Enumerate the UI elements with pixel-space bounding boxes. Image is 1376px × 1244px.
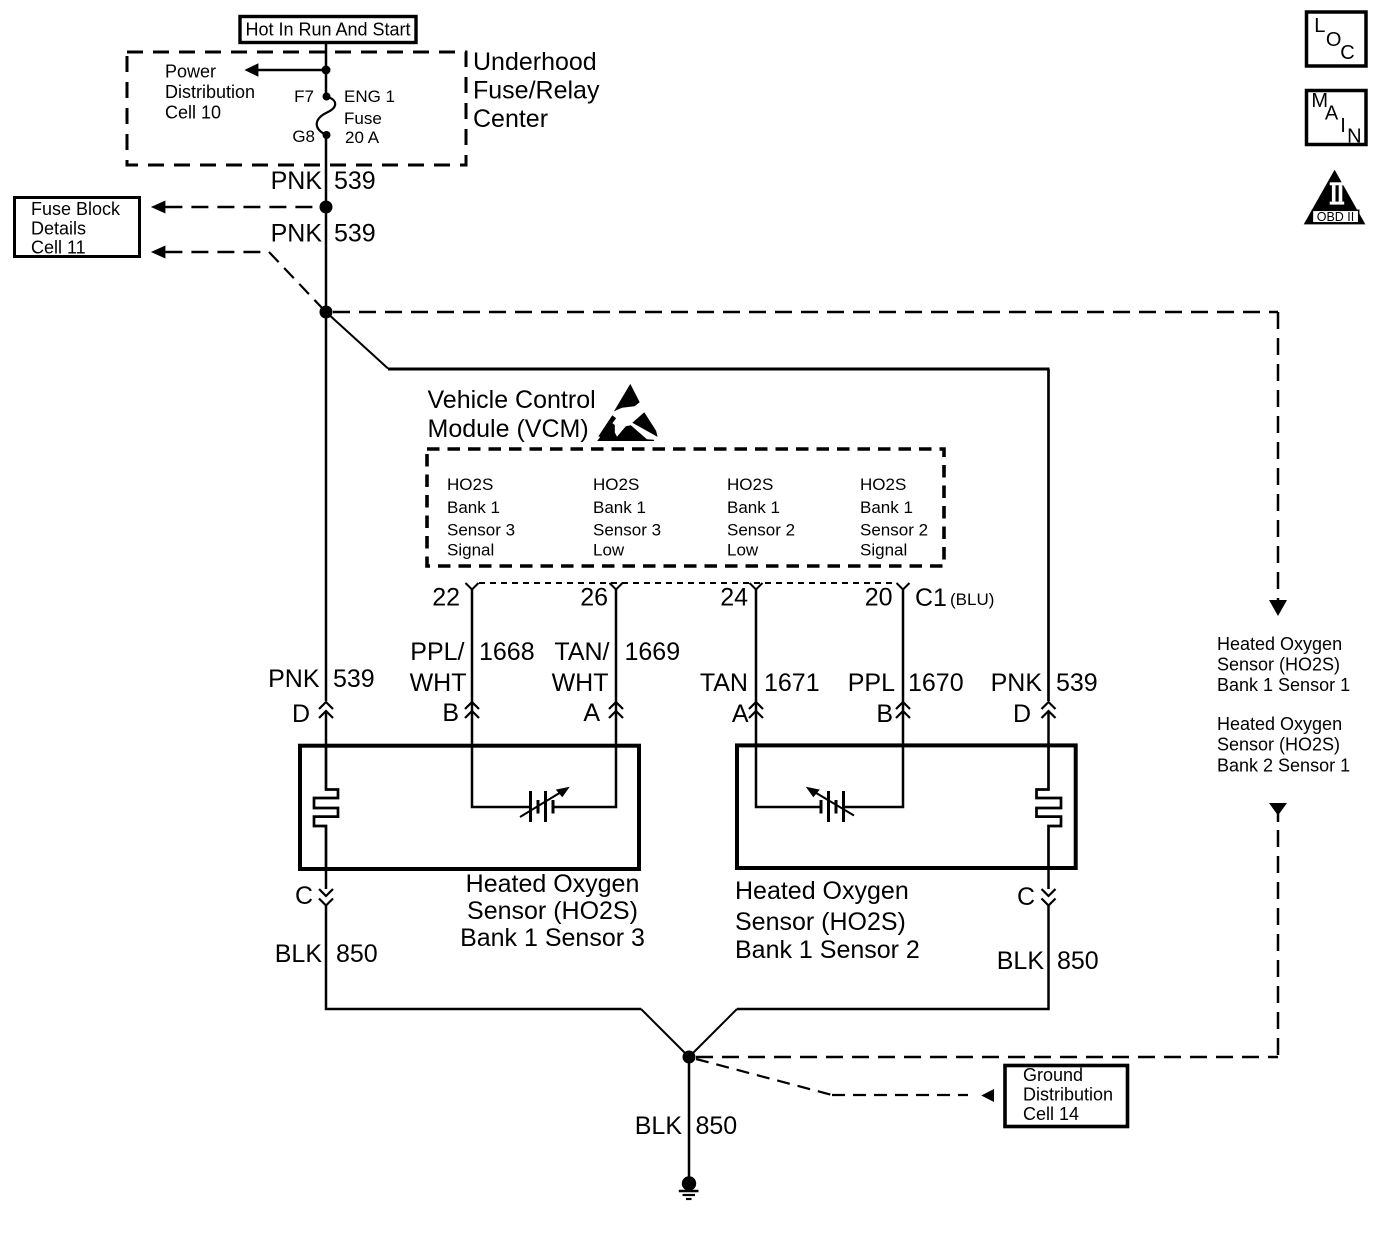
connector chevrons pin D left bbox=[319, 702, 333, 718]
svg-text:20 A: 20 A bbox=[345, 128, 380, 147]
label TAN 1671 bbox=[700, 669, 820, 697]
svg-text:Bank 1: Bank 1 bbox=[447, 498, 500, 517]
wire diagonal left to ground junction bbox=[641, 1009, 689, 1057]
svg-text:20: 20 bbox=[865, 584, 893, 612]
svg-text:Center: Center bbox=[473, 105, 548, 133]
svg-text:850: 850 bbox=[336, 940, 378, 968]
svg-text:Bank 1: Bank 1 bbox=[727, 498, 780, 517]
svg-text:Bank 1: Bank 1 bbox=[593, 498, 646, 517]
svg-text:PNK: PNK bbox=[268, 665, 320, 693]
op left HO2S box outline (Bank 1 Sensor 3) bbox=[300, 746, 639, 869]
pin 20 connector Y bbox=[897, 583, 910, 590]
Underhood Fuse/Relay Center dashed box bbox=[127, 52, 466, 165]
svg-text:B: B bbox=[442, 699, 459, 727]
svg-text:A: A bbox=[583, 699, 600, 727]
svg-text:(BLU): (BLU) bbox=[950, 590, 994, 609]
wire pin D left into box bbox=[325, 711, 328, 748]
symbol MAIN box bbox=[1307, 90, 1367, 148]
svg-text:Sensor (HO2S): Sensor (HO2S) bbox=[467, 897, 638, 925]
svg-text:PNK: PNK bbox=[271, 220, 323, 248]
svg-text:Power: Power bbox=[165, 62, 216, 82]
svg-text:OBD II: OBD II bbox=[1317, 210, 1355, 224]
svg-text:Cell 14: Cell 14 bbox=[1023, 1104, 1079, 1124]
svg-text:B: B bbox=[876, 700, 893, 728]
label Heated Oxygen Sensor (HO2S) Bank 2 Sensor 1 bbox=[1217, 714, 1350, 776]
connector chevrons pin C right (down) bbox=[1042, 889, 1056, 906]
heater element right (resistor meander) bbox=[1037, 747, 1062, 866]
sensor cell left (variable voltage source) bbox=[520, 787, 570, 822]
node junction at fuse feed bbox=[322, 66, 331, 75]
svg-text:G8: G8 bbox=[292, 127, 315, 146]
svg-text:1668: 1668 bbox=[479, 638, 535, 666]
label HO2S Bank 1 Sensor 3 Signal bbox=[447, 475, 515, 560]
wire dashed to Ground Distribution bbox=[696, 1059, 994, 1102]
svg-text:C1: C1 bbox=[915, 584, 947, 612]
wire diagonal right to ground junction bbox=[689, 1009, 737, 1057]
label TAN/ WHT 1669 bbox=[552, 638, 681, 697]
connector chevrons pin D right bbox=[1042, 702, 1056, 718]
pin 26 connector Y bbox=[610, 583, 623, 590]
svg-text:D: D bbox=[292, 700, 310, 728]
wire TAN/WHT 1669 pin 26 down into left HO2S box bbox=[554, 590, 616, 808]
svg-text:HO2S: HO2S bbox=[593, 475, 639, 494]
svg-text:1669: 1669 bbox=[625, 638, 681, 666]
ESD sensitivity symbol bbox=[597, 384, 658, 441]
svg-text:D: D bbox=[1013, 700, 1031, 728]
svg-text:A: A bbox=[732, 700, 749, 728]
label BLK 850 right bbox=[997, 947, 1099, 975]
wire dashed line to HO2S Bank1 Sensor1 reference (top right) bbox=[333, 311, 1278, 314]
connector chevrons pin A right bbox=[749, 702, 763, 718]
svg-text:539: 539 bbox=[334, 167, 376, 195]
node junction to VCM bbox=[320, 306, 333, 319]
wire dashed arrow to Fuse Block Details (upper) bbox=[151, 201, 326, 214]
wire dashed arrow to Fuse Block Details (lower) bbox=[151, 246, 324, 311]
svg-text:539: 539 bbox=[334, 220, 376, 248]
label Heated Oxygen Sensor (HO2S) Bank 1 Sensor 1 bbox=[1217, 634, 1350, 695]
svg-text:Bank 2 Sensor 1: Bank 2 Sensor 1 bbox=[1217, 756, 1350, 776]
svg-text:ENG 1: ENG 1 bbox=[344, 87, 395, 106]
label HO2S Bank 1 Sensor 3 Low bbox=[593, 475, 661, 560]
svg-text:HO2S: HO2S bbox=[727, 475, 773, 494]
svg-text:Fuse Block: Fuse Block bbox=[31, 199, 121, 219]
wire BLK 850 below left box bbox=[325, 869, 328, 889]
svg-text:N: N bbox=[1347, 126, 1361, 148]
svg-text:Sensor (HO2S): Sensor (HO2S) bbox=[1217, 655, 1340, 675]
svg-text:C: C bbox=[1017, 883, 1035, 911]
svg-text:850: 850 bbox=[1057, 947, 1099, 975]
svg-text:WHT: WHT bbox=[552, 669, 609, 697]
svg-text:Cell 11: Cell 11 bbox=[31, 238, 86, 258]
wire dashed line from ground junction up to HO2S Bank2 Sensor1 reference bbox=[1269, 803, 1287, 816]
svg-text:Module (VCM): Module (VCM) bbox=[428, 415, 589, 443]
svg-text:PPL/: PPL/ bbox=[410, 638, 464, 666]
wire BLK 850 below right box bbox=[1047, 868, 1050, 889]
svg-text:Bank 1: Bank 1 bbox=[860, 498, 913, 517]
node ground junction bbox=[683, 1051, 696, 1064]
label PNK 539 (second) bbox=[271, 220, 376, 248]
svg-text:1670: 1670 bbox=[908, 669, 964, 697]
label PNK 539 (left mid) bbox=[268, 665, 375, 693]
svg-text:A: A bbox=[1325, 103, 1339, 125]
svg-text:Sensor 2: Sensor 2 bbox=[727, 521, 795, 540]
label HO2S Bank 1 Sensor 2 Signal bbox=[860, 475, 928, 560]
label PNK 539 (first) bbox=[271, 167, 376, 195]
heater element left (resistor meander) bbox=[314, 747, 338, 867]
node Fuse Block Details Cell 11 box bbox=[15, 198, 140, 258]
wire dashed from ground junction to right riser bbox=[696, 1056, 1278, 1059]
svg-text:850: 850 bbox=[696, 1112, 738, 1140]
label Heated Oxygen Sensor (HO2S) Bank 1 Sensor 3 bbox=[460, 870, 645, 952]
svg-text:Bank 1 Sensor 2: Bank 1 Sensor 2 bbox=[735, 936, 920, 964]
svg-text:PNK: PNK bbox=[271, 167, 323, 195]
svg-text:F7: F7 bbox=[294, 87, 314, 106]
svg-text:Signal: Signal bbox=[860, 541, 907, 560]
wire BLK 850 right lower bbox=[737, 906, 1049, 1010]
svg-text:HO2S: HO2S bbox=[860, 475, 906, 494]
svg-text:Distribution: Distribution bbox=[165, 82, 255, 102]
svg-text:Heated Oxygen: Heated Oxygen bbox=[1217, 714, 1342, 734]
svg-text:Details: Details bbox=[31, 219, 86, 239]
op VCM outline right edge / wire PNK 539 right bbox=[1047, 369, 1050, 701]
wire PNK 539 main vertical down to left HO2S box bbox=[325, 312, 328, 701]
svg-text:Bank 1 Sensor 3: Bank 1 Sensor 3 bbox=[460, 924, 645, 952]
wire PPL 1670 pin 20 down into right HO2S box bbox=[845, 590, 903, 808]
svg-text:BLK: BLK bbox=[635, 1112, 683, 1140]
svg-text:Heated Oxygen: Heated Oxygen bbox=[735, 877, 909, 905]
svg-text:22: 22 bbox=[432, 584, 460, 612]
svg-text:TAN/: TAN/ bbox=[554, 638, 609, 666]
svg-text:BLK: BLK bbox=[275, 940, 323, 968]
svg-text:BLK: BLK bbox=[997, 947, 1045, 975]
svg-text:26: 26 bbox=[580, 584, 608, 612]
VCM internal dashed box bbox=[427, 449, 944, 566]
svg-text:539: 539 bbox=[1056, 669, 1098, 697]
label Vehicle Control Module (VCM) bbox=[428, 386, 596, 443]
svg-text:TAN: TAN bbox=[700, 669, 748, 697]
wire from Hot In Run And Start box down to fuse bbox=[325, 43, 328, 97]
svg-text:Heated Oxygen: Heated Oxygen bbox=[1217, 634, 1342, 654]
label BLK 850 bottom bbox=[635, 1112, 737, 1140]
label PPL/ WHT 1668 bbox=[410, 638, 535, 697]
svg-text:Low: Low bbox=[593, 541, 625, 560]
svg-text:Sensor (HO2S): Sensor (HO2S) bbox=[1217, 735, 1340, 755]
svg-text:Sensor (HO2S): Sensor (HO2S) bbox=[735, 908, 906, 936]
svg-text:Sensor 3: Sensor 3 bbox=[593, 521, 661, 540]
svg-text:PNK: PNK bbox=[991, 669, 1043, 697]
wire diagonal from junction to VCM corner bbox=[326, 312, 388, 369]
op VCM outline top edge bbox=[388, 368, 1050, 371]
svg-text:Vehicle Control: Vehicle Control bbox=[428, 386, 596, 414]
connector chevrons pin C left (down) bbox=[319, 889, 333, 906]
svg-text:Ground: Ground bbox=[1023, 1065, 1083, 1085]
svg-text:Sensor 3: Sensor 3 bbox=[447, 521, 515, 540]
svg-text:Cell 10: Cell 10 bbox=[165, 103, 221, 123]
ground symbol G107 bbox=[679, 1176, 699, 1199]
connector chevrons pin B right bbox=[896, 702, 910, 718]
svg-text:Fuse: Fuse bbox=[344, 109, 382, 128]
node Hot In Run And Start box bbox=[240, 17, 416, 43]
svg-text:Fuse/Relay: Fuse/Relay bbox=[473, 77, 600, 105]
svg-text:Signal: Signal bbox=[447, 541, 494, 560]
label PPL 1670 bbox=[848, 669, 964, 697]
pin 24 connector Y bbox=[750, 583, 763, 590]
svg-text:HO2S: HO2S bbox=[447, 475, 493, 494]
svg-text:C: C bbox=[295, 882, 313, 910]
connector chevrons pin B left bbox=[465, 702, 479, 718]
wire arrow to Power Distribution bbox=[244, 63, 326, 76]
svg-text:I: I bbox=[1340, 115, 1346, 137]
connector C1 dashed line bbox=[479, 582, 897, 584]
pin 22 connector Y bbox=[466, 583, 479, 590]
op right HO2S box outline (Bank 1 Sensor 2) bbox=[737, 745, 1076, 868]
label Underhood Fuse/Relay Center bbox=[473, 48, 600, 133]
svg-text:WHT: WHT bbox=[410, 669, 467, 697]
sensor cell right (variable voltage source) bbox=[806, 787, 854, 822]
label Heated Oxygen Sensor (HO2S) Bank 1 Sensor 2 bbox=[735, 877, 920, 964]
wire PPL/WHT 1668 pin 22 down into left HO2S box bbox=[472, 590, 530, 808]
svg-text:C: C bbox=[1340, 42, 1354, 64]
symbol OBD II triangle bbox=[1304, 170, 1366, 225]
node Ground Distribution Cell 14 box bbox=[1005, 1065, 1128, 1127]
svg-text:O: O bbox=[1326, 29, 1342, 51]
wire TAN 1671 pin 24 down into right HO2S box bbox=[756, 590, 820, 808]
svg-text:Heated Oxygen: Heated Oxygen bbox=[466, 870, 640, 898]
svg-text:Low: Low bbox=[727, 541, 759, 560]
svg-text:L: L bbox=[1314, 15, 1325, 37]
wire BLK 850 left lower bbox=[326, 906, 641, 1010]
label BLK 850 left bbox=[275, 940, 378, 968]
svg-text:24: 24 bbox=[720, 584, 748, 612]
svg-text:PPL: PPL bbox=[848, 669, 895, 697]
svg-text:Underhood: Underhood bbox=[473, 48, 597, 76]
fuse F7/G8 ENG 1 20 A bbox=[317, 93, 335, 140]
label HO2S Bank 1 Sensor 2 Low bbox=[727, 475, 795, 560]
wire PNK 539 from fuse to junction bbox=[325, 135, 328, 312]
node junction to Fuse Block Details bbox=[320, 201, 333, 214]
svg-text:539: 539 bbox=[333, 665, 375, 693]
connector chevrons pin A left bbox=[609, 702, 623, 718]
wire BLK 850 to ground bbox=[688, 1057, 691, 1177]
label Power Distribution Cell 10 bbox=[165, 62, 255, 123]
svg-text:1671: 1671 bbox=[764, 669, 820, 697]
symbol LOC box bbox=[1307, 12, 1367, 66]
wire pin D right into box bbox=[1047, 711, 1050, 748]
svg-text:Hot In Run And Start: Hot In Run And Start bbox=[245, 20, 410, 40]
svg-text:Sensor 2: Sensor 2 bbox=[860, 521, 928, 540]
svg-text:Bank 1 Sensor 1: Bank 1 Sensor 1 bbox=[1217, 675, 1350, 695]
label PNK 539 (right mid) bbox=[991, 669, 1098, 697]
svg-text:Distribution: Distribution bbox=[1023, 1085, 1113, 1105]
